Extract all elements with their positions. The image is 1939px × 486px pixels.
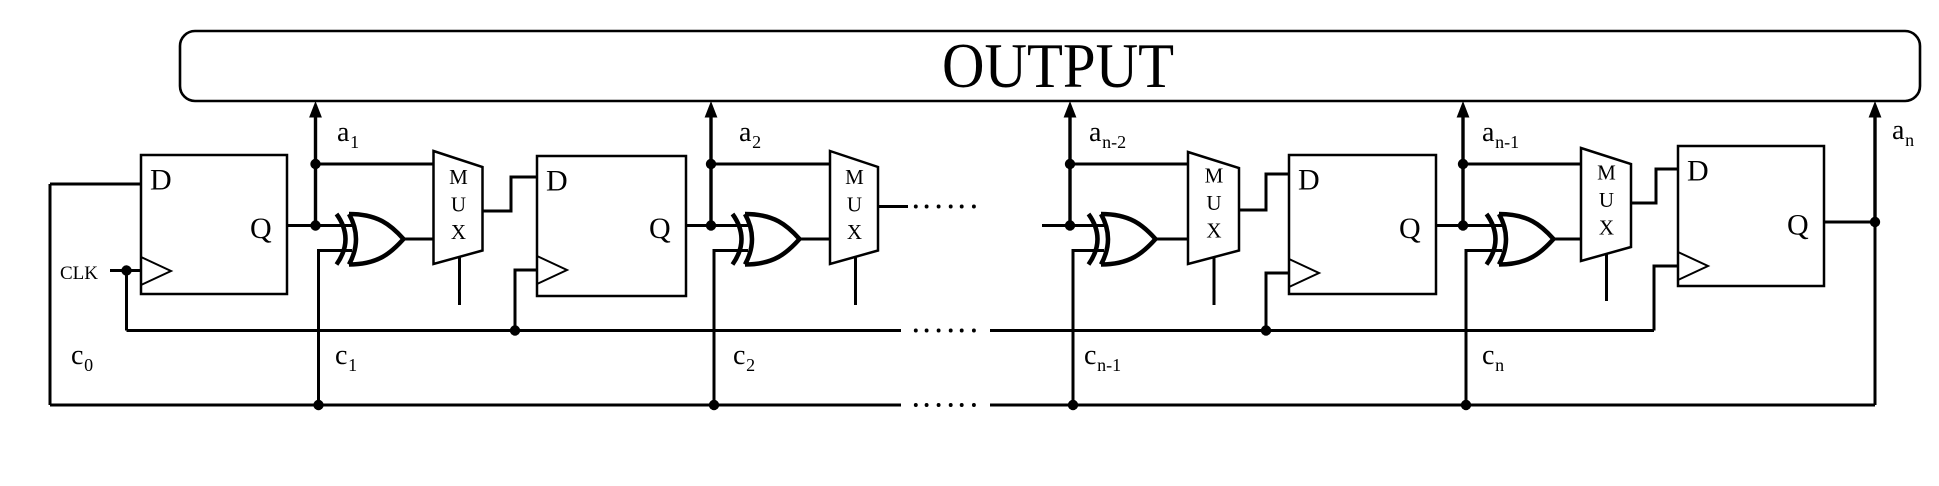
svg-text:c: c (1084, 340, 1096, 371)
svg-text:M: M (449, 165, 468, 189)
svg-text:X: X (1599, 216, 1614, 240)
xor gate X1 (337, 214, 404, 265)
label CLK (60, 263, 98, 284)
D flip-flop U4 (1678, 146, 1824, 286)
wire feedback tap c(n-1) vertical (1073, 251, 1104, 406)
svg-text:Q: Q (1399, 212, 1421, 245)
wire bottom feedback rail left segment (50, 404, 901, 407)
svg-text:a: a (337, 117, 350, 148)
mux M1 (434, 151, 483, 264)
svg-text:n-2: n-2 (1102, 132, 1126, 152)
wire input stub stage n-2 (1042, 224, 1104, 227)
wire X1 output (403, 238, 435, 241)
wire MUX4 input 1 (1463, 163, 1582, 166)
svg-text:U: U (1206, 191, 1221, 215)
wire M4 select stub (1605, 254, 1608, 301)
label an (1892, 115, 1914, 150)
svg-text:M: M (1597, 161, 1616, 185)
junction c2 on feedback rail (709, 400, 719, 410)
ellipsis dots data path (914, 205, 976, 209)
svg-text:n: n (1495, 355, 1504, 375)
wire bottom feedback rail right segment (990, 404, 1875, 407)
junction c(n-1) on feedback rail (1068, 400, 1078, 410)
junction Q4/an (1870, 217, 1880, 227)
svg-text:CLK: CLK (60, 263, 98, 284)
junction a(n-2)/MUX input (1065, 159, 1075, 169)
OUTPUT bus box (180, 31, 1920, 101)
mux M4 (1581, 148, 1631, 261)
svg-text:a: a (1089, 117, 1102, 148)
wire CLK input (110, 269, 141, 272)
xor gate X3 (1089, 214, 1156, 265)
label a n-1 (1482, 117, 1519, 152)
junction a(n-2)/input (1065, 220, 1075, 230)
svg-text:n-1: n-1 (1097, 355, 1121, 375)
svg-text:c: c (71, 340, 83, 371)
wire Q4 output (1824, 221, 1875, 224)
svg-text:c: c (335, 340, 347, 371)
node c0 left vertical wire (49, 184, 52, 405)
label c2 (733, 340, 755, 375)
wire Q2 output (686, 224, 748, 227)
svg-text:U: U (847, 193, 862, 217)
D flip-flop U2 (537, 156, 686, 296)
mux M2 (830, 151, 878, 264)
svg-text:D: D (1298, 164, 1320, 197)
svg-text:n: n (1905, 130, 1914, 150)
wire a1 vertical with arrow into OUTPUT (309, 101, 322, 226)
wire a2 vertical with arrow into OUTPUT (705, 101, 718, 226)
wire M3 output to U3 D (1239, 174, 1289, 210)
wire feedback tap cn vertical (1466, 251, 1502, 406)
label c0 (71, 340, 93, 375)
wire X4 output (1553, 238, 1582, 241)
D flip-flop U1 (141, 155, 287, 294)
svg-text:D: D (150, 164, 172, 197)
svg-text:n-1: n-1 (1495, 132, 1519, 152)
wire feedback tap c2 vertical (714, 251, 748, 406)
svg-text:c: c (733, 340, 745, 371)
wire M2 select stub (854, 257, 857, 305)
svg-text:U: U (1599, 188, 1614, 212)
svg-text:a: a (1482, 117, 1495, 148)
ellipsis dots clock rail (914, 329, 976, 333)
wire D input of U1 (50, 183, 141, 186)
svg-text:1: 1 (348, 355, 357, 375)
wire Q1 output (287, 224, 352, 227)
svg-text:X: X (451, 220, 466, 244)
wire an down to feedback rail (1874, 222, 1877, 405)
svg-text:U: U (451, 193, 466, 217)
wire MUX2 input 1 (711, 163, 831, 166)
svg-text:c: c (1482, 340, 1494, 371)
svg-text:Q: Q (649, 212, 671, 245)
junction a1/Q1 (310, 220, 320, 230)
junction cn on feedback rail (1461, 400, 1471, 410)
svg-text:X: X (847, 220, 862, 244)
wire clock rail end to U4 (1654, 266, 1678, 331)
label a1 (337, 117, 359, 152)
wire a(n-2) vertical with arrow into OUTPUT (1064, 101, 1077, 226)
svg-text:OUTPUT: OUTPUT (942, 31, 1174, 101)
label c n-1 (1084, 340, 1121, 375)
junction c1 on feedback rail (313, 400, 323, 410)
svg-text:2: 2 (752, 132, 761, 152)
svg-text:1: 1 (350, 132, 359, 152)
junction CLK node (121, 265, 131, 275)
wire M1 select stub (458, 257, 461, 305)
wire clock to U3 (1266, 273, 1289, 331)
wire Q3 output (1436, 224, 1502, 227)
label a n-2 (1089, 117, 1126, 152)
wire M1 output to U2 D (483, 177, 538, 211)
wire MUX1 input 1 (316, 163, 435, 166)
svg-text:M: M (845, 165, 864, 189)
svg-text:2: 2 (746, 355, 755, 375)
svg-text:0: 0 (84, 355, 93, 375)
xor gate X2 (733, 214, 800, 265)
junction a2/MUX input (706, 159, 716, 169)
junction clock rail to U2 (510, 325, 520, 335)
D flip-flop U3 (1289, 155, 1436, 294)
svg-text:D: D (546, 165, 568, 198)
svg-text:D: D (1687, 155, 1709, 188)
mux M3 (1188, 152, 1239, 264)
svg-text:X: X (1206, 219, 1221, 243)
wire X3 output (1155, 238, 1189, 241)
junction a1/MUX input (310, 159, 320, 169)
ellipsis dots feedback rail (914, 403, 976, 407)
junction a2/Q2 (706, 220, 716, 230)
label a2 (739, 117, 761, 152)
wire clock rail right segment (990, 329, 1654, 332)
svg-text:a: a (739, 117, 752, 148)
wire CLK to clock rail (125, 271, 128, 331)
wire M2 output stub (878, 205, 908, 208)
svg-text:M: M (1205, 164, 1224, 188)
label c1 (335, 340, 357, 375)
wire an vertical with arrow into OUTPUT (1869, 101, 1882, 226)
wire M3 select stub (1213, 258, 1216, 306)
wire feedback tap c1 vertical (319, 251, 353, 406)
wire a(n-1) vertical with arrow into OUTPUT (1457, 101, 1470, 226)
junction clock rail to U3 (1261, 325, 1271, 335)
svg-text:Q: Q (1787, 209, 1809, 242)
wire MUX3 input 1 (1070, 163, 1189, 166)
junction a(n-1)/Q3 (1458, 220, 1468, 230)
xor gate X4 (1487, 214, 1554, 265)
wire M4 output to U4 D (1631, 169, 1678, 203)
junction a(n-1)/MUX input (1458, 159, 1468, 169)
wire X2 output (799, 238, 831, 241)
label cn (1482, 340, 1504, 375)
svg-text:a: a (1892, 115, 1905, 146)
wire clock rail left segment (127, 329, 902, 332)
svg-text:Q: Q (250, 212, 272, 245)
wire clock to U2 (515, 270, 537, 331)
